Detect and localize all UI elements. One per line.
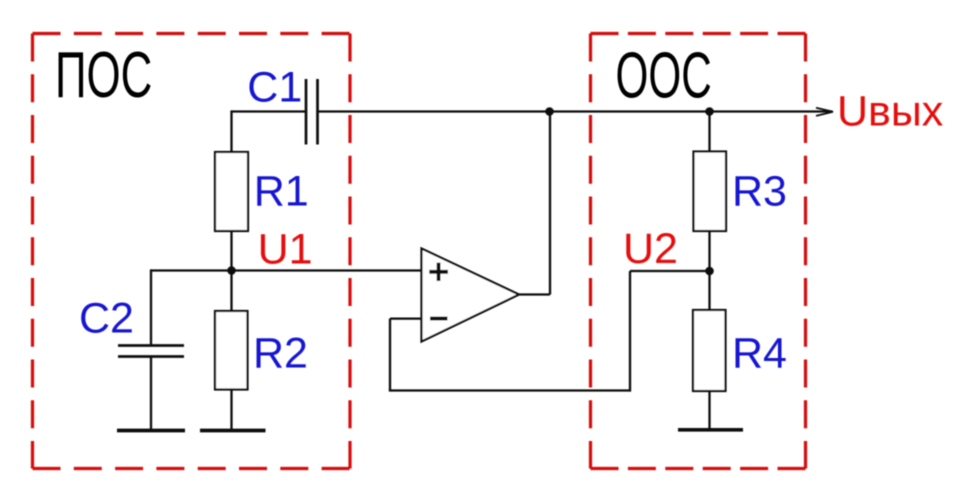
pin − (inverting input): [430, 317, 448, 321]
wire output riser up to top net: [549, 112, 551, 295]
wire R2 bottom to ground: [230, 390, 232, 431]
svg-text:R3: R3: [732, 168, 787, 216]
wire vertical into R1 top: [230, 110, 232, 152]
svg-text:ООС: ООС: [616, 38, 712, 112]
resistor R2: [215, 311, 248, 390]
wire node U1 horizontal to op-amp + input: [151, 269, 422, 271]
dashed box ООС (negative feedback region): [591, 34, 806, 469]
wire node U1 down to R2 top: [230, 271, 232, 312]
wire R3 bottom to node U2: [708, 231, 710, 271]
wire top-left horizontal (C1 left lead): [232, 110, 307, 112]
junction output/top net: [545, 107, 554, 116]
svg-text:R2: R2: [253, 330, 308, 378]
wire feedback left vertical: [389, 319, 391, 391]
junction top net / R3: [705, 107, 714, 116]
arrow head at Uвых: [816, 108, 833, 116]
resistor R3: [694, 152, 727, 232]
pin + (non-inverting input): [429, 263, 448, 281]
svg-text:U1: U1: [258, 226, 313, 274]
op-amp U? (triangle): [422, 249, 520, 342]
capacitor C1: [306, 79, 318, 145]
ground of R4: [678, 428, 743, 432]
junction node U1: [227, 266, 236, 275]
wire R4 bottom to ground: [708, 391, 710, 430]
svg-text:R4: R4: [732, 330, 787, 378]
wire R1 bottom to node U1: [230, 231, 232, 271]
wire inverting input stub: [390, 317, 422, 319]
wire top net down to R3 top: [708, 112, 710, 152]
ground of C2: [117, 429, 185, 433]
svg-text:ПОС: ПОС: [55, 38, 152, 111]
wire feedback bottom horizontal: [389, 389, 630, 391]
wire op-amp output to vertical riser: [519, 293, 550, 295]
wire node U2 down to R4 top: [708, 271, 710, 310]
svg-text:R1: R1: [254, 168, 309, 216]
resistor R1: [215, 152, 248, 231]
dashed box ПОС (positive feedback region): [33, 34, 351, 469]
svg-text:Uвых: Uвых: [837, 88, 944, 136]
svg-text:C1: C1: [247, 64, 302, 112]
wire C2 bottom plate to ground: [150, 357, 152, 431]
wire top horizontal C1 right to output arrow: [318, 110, 833, 112]
wire into node U2: [630, 270, 710, 272]
resistor R4: [693, 310, 726, 391]
junction node U2: [705, 267, 714, 276]
ground of R2: [200, 429, 266, 433]
svg-text:U2: U2: [623, 225, 678, 273]
svg-text:C2: C2: [79, 295, 134, 343]
capacitor C2: [118, 346, 184, 357]
wire node U1 down to C2 top plate: [150, 269, 152, 345]
wire feedback right vertical up to node U2: [629, 271, 631, 392]
